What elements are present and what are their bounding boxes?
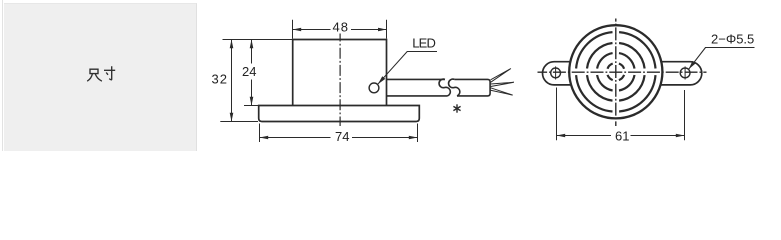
mounting flange base bbox=[259, 106, 420, 122]
dimension texts bbox=[212, 19, 755, 144]
arrow hole leader bbox=[689, 61, 696, 69]
svg-text:24: 24 bbox=[242, 64, 256, 79]
horizontal centerline bbox=[538, 71, 707, 73]
arrowheads bbox=[230, 28, 696, 140]
right mounting ear bbox=[632, 62, 702, 85]
svg-text:LED: LED bbox=[412, 35, 435, 50]
label 尺寸 (drawn strokes) bbox=[87, 66, 115, 81]
LED indicator circle bbox=[369, 83, 379, 93]
wire lead bottom bbox=[491, 88, 513, 95]
svg-text:32: 32 bbox=[212, 72, 228, 87]
wire lead top bbox=[491, 69, 511, 83]
right ear hole bbox=[680, 68, 690, 78]
buzzer body rectangle bbox=[293, 40, 387, 106]
svg-text:61: 61 bbox=[615, 129, 629, 144]
arrow 48 left bbox=[293, 28, 302, 32]
left hole vertical tick bbox=[555, 66, 557, 79]
hole size leader line bbox=[689, 48, 755, 70]
left table border line bbox=[2, 0, 3, 151]
dimension 24 line bbox=[251, 40, 253, 106]
grille ring slots r=8.9 bbox=[608, 64, 625, 81]
grille ring slots r=19 bbox=[597, 53, 634, 90]
arrow 24 down bbox=[250, 97, 254, 106]
arrow 48 right bbox=[378, 28, 387, 32]
arrow 32 down bbox=[230, 113, 234, 122]
cable jacket left section bbox=[387, 79, 448, 96]
left mounting ear bbox=[543, 62, 600, 85]
dimension 48 extension lines bbox=[293, 20, 387, 39]
arrow 74 right bbox=[409, 136, 418, 140]
vertical centerline of body bbox=[339, 34, 341, 127]
arrow 24 up bbox=[250, 40, 254, 49]
LED leader line bbox=[378, 52, 437, 85]
dimension 32 line bbox=[231, 40, 233, 122]
dimension 48 line bbox=[293, 29, 387, 31]
dimension 32 extension lines bbox=[220, 40, 292, 122]
arrow 32 up bbox=[230, 40, 234, 49]
outer housing circle bbox=[569, 25, 662, 118]
dimension 61 extension lines bbox=[557, 88, 685, 141]
dimension 61 line bbox=[557, 135, 685, 137]
cable break squiggle 1 bbox=[439, 79, 450, 96]
wire lead middle bbox=[491, 82, 514, 86]
gray label panel bbox=[4, 3, 197, 151]
svg-text:2−Φ5.5: 2−Φ5.5 bbox=[711, 31, 754, 46]
arrow 74 left bbox=[260, 136, 269, 140]
grille ring slots r=29 bbox=[587, 43, 645, 101]
left ear hole bbox=[551, 68, 561, 78]
cable jacket right section bbox=[454, 79, 490, 96]
vertical centerline bbox=[615, 19, 617, 127]
dimension 74 line bbox=[260, 137, 418, 139]
arrow 61 right bbox=[676, 134, 685, 138]
right hole vertical tick bbox=[684, 66, 686, 79]
arrow LED leader bbox=[378, 76, 386, 84]
dimension 74 extension lines bbox=[260, 124, 418, 143]
cable break squiggle 2 bbox=[449, 79, 460, 96]
asterisk footnote mark bbox=[453, 104, 460, 112]
arrow 61 left bbox=[557, 134, 566, 138]
grille ring slots r=39.8 bbox=[576, 32, 655, 111]
svg-text:74: 74 bbox=[335, 129, 349, 144]
svg-text:48: 48 bbox=[333, 19, 349, 34]
